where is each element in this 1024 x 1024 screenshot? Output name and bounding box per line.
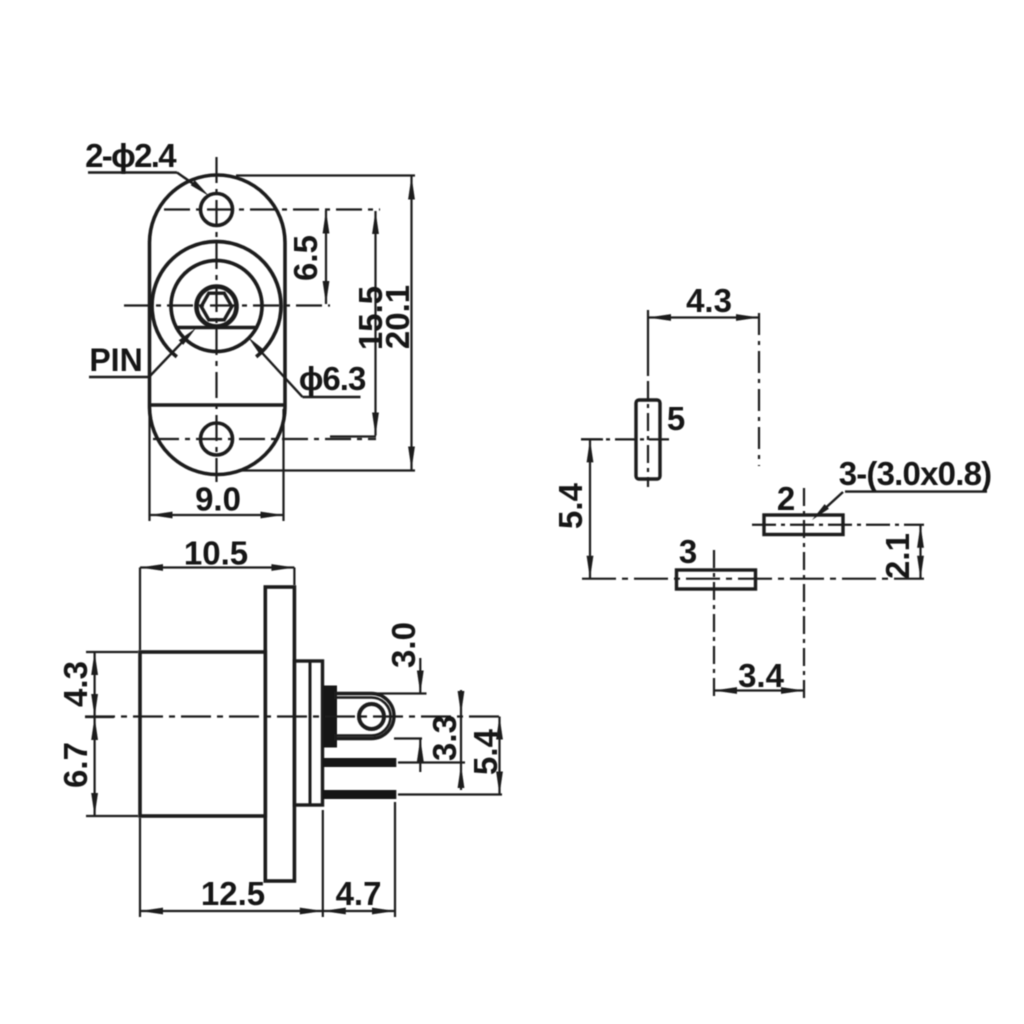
svg-text:5: 5	[667, 400, 685, 437]
middle pin extension line	[398, 761, 465, 763]
svg-text:2-ϕ2.4: 2-ϕ2.4	[85, 137, 177, 174]
svg-text:2.1: 2.1	[879, 533, 916, 579]
svg-text:4.7: 4.7	[336, 875, 382, 912]
front view: top mounting hole (2.4 dia)	[201, 194, 233, 226]
extension line bottom of flange	[240, 469, 415, 471]
front view: bottom mounting hole (2.4 dia)	[201, 423, 233, 455]
dimension 4.3 left	[93, 652, 95, 717]
front view: horizontal centerline through barrel	[124, 304, 330, 306]
front view: centerline through bottom hole	[153, 438, 376, 440]
side view: second plate inner line	[309, 661, 312, 805]
dimension 12.5 ext left	[139, 818, 141, 917]
side view: body rectangle	[140, 652, 265, 816]
svg-text:3: 3	[679, 533, 697, 570]
dimension 4.3 tick at centerline	[85, 716, 114, 718]
dimension 20.1	[410, 177, 412, 470]
dimension 10.5	[140, 566, 294, 568]
lug top extension line	[373, 692, 427, 694]
dimension 12.5 ext middle	[322, 810, 324, 917]
extension line bottom-hole right	[330, 435, 376, 437]
dimension 6.7	[93, 717, 95, 816]
side view: bottom pin	[323, 790, 396, 799]
dimension 3.3	[460, 690, 462, 790]
svg-text:2: 2	[777, 480, 795, 517]
dimension 3.0 lower segment	[419, 739, 421, 773]
dimension 5.4 pcb	[589, 439, 591, 578]
bottom pin extension line	[398, 793, 502, 795]
svg-text:3.4: 3.4	[738, 657, 785, 694]
extension line top of flange	[236, 174, 415, 176]
leader for PIN	[89, 376, 149, 378]
front view: chord line at bottom cap	[150, 403, 286, 406]
svg-text:10.5: 10.5	[184, 535, 248, 572]
dimension 12.5	[140, 910, 323, 912]
dimension 10.5 ext right	[293, 568, 295, 586]
dimension 9.0	[150, 514, 284, 516]
pcb pin 3 slot	[677, 570, 756, 589]
svg-text:ϕ6.3: ϕ6.3	[299, 360, 366, 397]
dimension 4.3 pcb ext right	[758, 313, 760, 466]
dimension 4.7 ext right	[394, 802, 396, 917]
svg-text:6.5: 6.5	[287, 235, 324, 281]
svg-text:3.3: 3.3	[426, 715, 463, 761]
dimension 6.5	[325, 211, 327, 305]
svg-text:5.4: 5.4	[467, 728, 504, 775]
front view: barrel circle 6.3 dia	[171, 261, 262, 352]
leader for 2-dia2.4	[88, 171, 177, 173]
pcb pin 3 vertical centerline	[713, 550, 715, 700]
dimension 4.3 pcb	[648, 316, 759, 318]
side view: middle pin	[323, 758, 396, 767]
dimension 3.0 upper segment	[419, 658, 421, 694]
side view: lug hole	[359, 704, 384, 729]
svg-text:4.3: 4.3	[686, 282, 732, 319]
lug bottom extension line	[394, 737, 422, 739]
svg-text:9.0: 9.0	[195, 481, 241, 518]
leader for 3-(3.0x0.8)	[845, 490, 987, 492]
side view: solder lug inner contour	[334, 698, 391, 736]
dimension 4.3 ext top	[86, 651, 138, 653]
side view: black insulator bushing	[324, 686, 338, 748]
front view: outer boss circle	[152, 241, 281, 356]
pcb pin 5 slot	[636, 400, 660, 479]
dimension 5.4 pcb tick	[581, 438, 603, 440]
svg-text:12.5: 12.5	[201, 875, 265, 912]
extension line 9.0 right	[282, 409, 284, 521]
dimension 4.3 pcb ext left	[647, 310, 649, 376]
svg-text:5.4: 5.4	[552, 482, 589, 529]
pcb pin 2 horizontal centerline	[752, 524, 924, 526]
pcb pin 5 vertical centerline	[647, 381, 649, 487]
svg-text:6.7: 6.7	[57, 742, 94, 788]
pcb pin 2 slot	[764, 515, 843, 535]
dimension 15.5	[374, 211, 376, 436]
front view: centerline through top hole	[164, 208, 380, 210]
side view: mounting flange plate	[265, 587, 294, 881]
svg-text:3-(3.0x0.8): 3-(3.0x0.8)	[839, 455, 992, 492]
extension line 9.0 left	[148, 409, 150, 521]
side view: solder lug outline	[334, 694, 394, 739]
dimension 3.4 pcb	[714, 689, 804, 691]
dimension 10.5 ext left	[139, 568, 141, 651]
pcb pin 5 horizontal centerline	[581, 438, 671, 440]
dimension 6.7 ext bottom	[86, 815, 138, 817]
svg-text:3.0: 3.0	[385, 622, 422, 668]
leader for dia6.3	[303, 396, 361, 398]
front view: vertical centerline	[215, 157, 217, 482]
svg-text:20.1: 20.1	[379, 285, 416, 349]
svg-text:4.3: 4.3	[57, 661, 94, 707]
dimension 2.1 pcb	[919, 525, 921, 579]
front view: chord across barrel	[175, 326, 258, 329]
front view: center pin outer circle	[197, 287, 237, 327]
front view: oval flange outline (stadium 9.0 x 20.1)	[150, 175, 286, 475]
side view: horizontal centerline	[85, 715, 502, 717]
pcb pin 3 horizontal centerline	[582, 578, 924, 580]
svg-text:PIN: PIN	[89, 342, 142, 378]
front view: center pin hexagon	[201, 293, 232, 320]
side view: second plate	[294, 661, 322, 805]
dimension 5.4 side view	[498, 717, 500, 795]
dimension 4.7	[323, 910, 395, 912]
pcb pin 2 vertical centerline	[803, 488, 805, 700]
